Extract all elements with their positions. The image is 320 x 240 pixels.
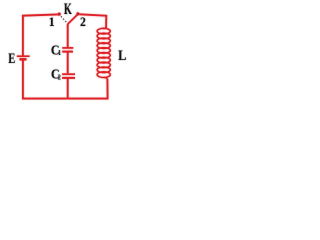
svg-text:1: 1 (58, 48, 62, 57)
switch K lever (thrown to contact 2) (68, 14, 78, 25)
battery E long plate (+) (17, 55, 30, 57)
svg-text:L: L (118, 47, 126, 63)
wire battery - to bottom-left corner and bottom run to middle junction (23, 59, 68, 98)
wire below C2 to bottom junction (67, 79, 69, 98)
switch contact 1 node dot (58, 13, 61, 16)
wire top-right segment (contact 2 to inductor top) (80, 14, 107, 27)
capacitor C1 plates (62, 48, 73, 52)
svg-text:2: 2 (80, 15, 86, 29)
battery E plates (17, 56, 30, 59)
wire top-left segment (contact 1 to battery +) (23, 14, 58, 55)
wire between C1 and C2 (67, 52, 69, 73)
wire middle riser (switch pivot to C1) (67, 25, 69, 48)
svg-text:K: K (64, 0, 72, 18)
inductor L coil (97, 27, 110, 80)
switch contact 2 node dot (76, 12, 79, 15)
capacitor C2 plates (62, 74, 75, 78)
switch K open-position dotted line (toward contact 1) (61, 17, 66, 23)
svg-text:2: 2 (58, 74, 62, 82)
svg-text:E: E (8, 50, 15, 66)
wire bottom-right run and right riser to inductor bottom (68, 79, 108, 98)
battery E short plate (-) (20, 58, 27, 61)
svg-text:1: 1 (49, 15, 55, 29)
